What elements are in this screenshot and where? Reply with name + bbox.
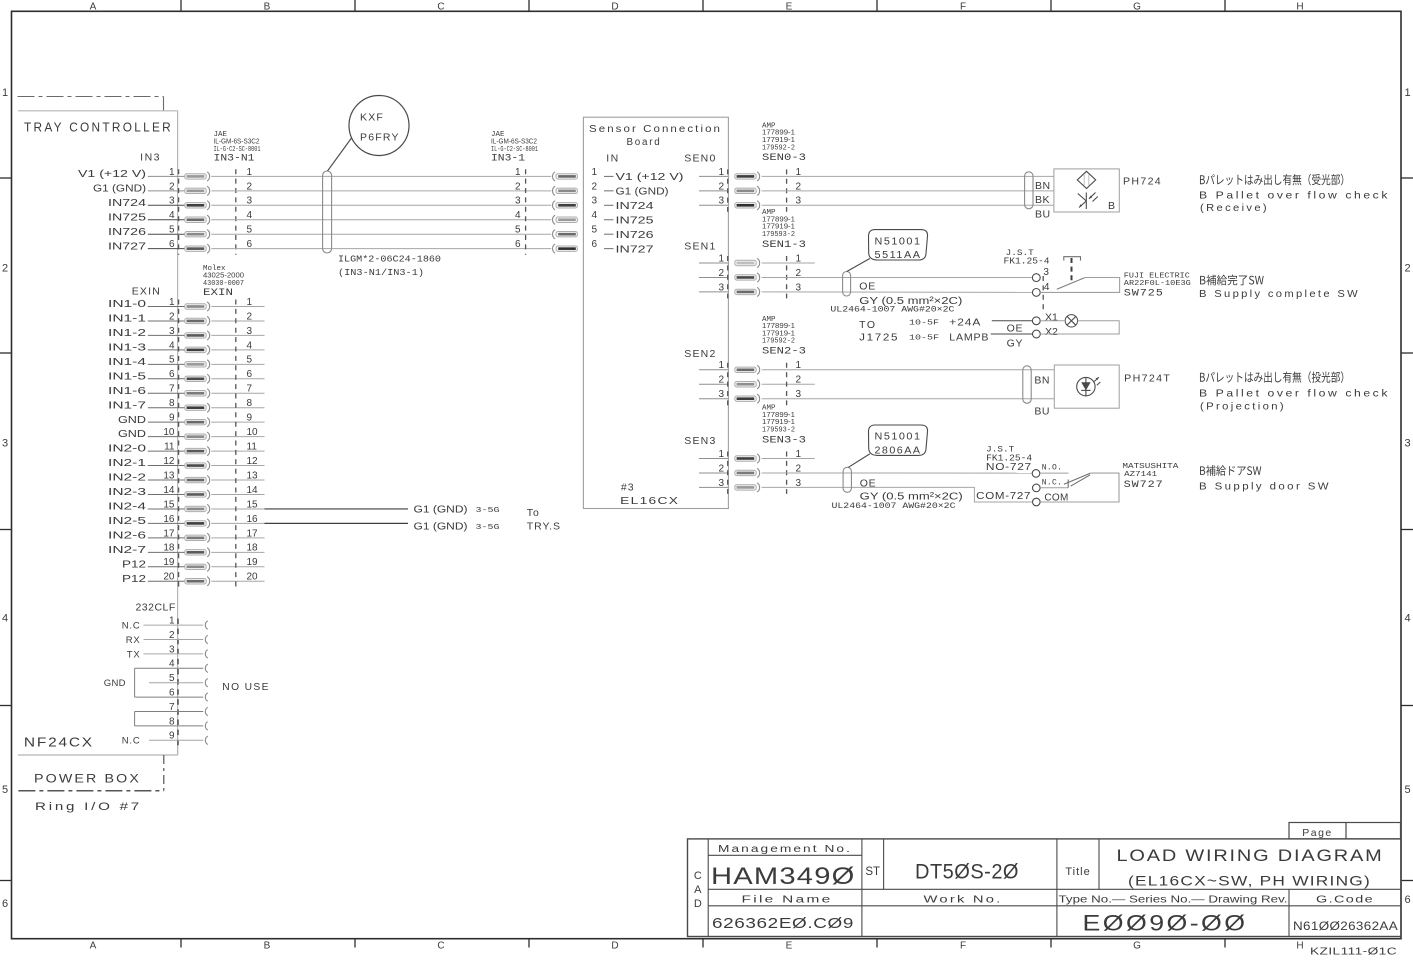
- destination label To TRY.S: [527, 507, 561, 533]
- terminal label J.S.T FK1.25-4 (SW727): [986, 446, 1032, 464]
- wire SEN1 pin3 GY to SW725 terminal 4: [762, 291, 1033, 294]
- svg-text:177919-1: 177919-1: [762, 328, 795, 337]
- svg-text:A: A: [694, 884, 702, 896]
- cable wires IN3-N1 to IN3-1: [211, 176, 551, 248]
- SEN2 connector housing dashed lines: [727, 363, 729, 405]
- JAE connector part labels IN3-N1: [214, 131, 261, 165]
- svg-text:(IN3-N1/IN3-1): (IN3-N1/IN3-1): [338, 267, 424, 278]
- svg-text:B Pallet over flow check: B Pallet over flow check: [1199, 388, 1390, 400]
- net label G1 (GND) 3-5G pin16: [414, 522, 501, 533]
- wire +24A to X1: [992, 320, 1033, 322]
- svg-text:IN727: IN727: [616, 244, 655, 255]
- svg-text:GND: GND: [118, 429, 146, 440]
- svg-text:IN1-2: IN1-2: [108, 328, 147, 339]
- svg-text:4: 4: [1044, 282, 1050, 293]
- svg-text:NO-727: NO-727: [986, 462, 1032, 473]
- svg-text:5: 5: [169, 225, 175, 236]
- SW727 terminal N.O.: [1032, 470, 1040, 478]
- svg-text:IN724: IN724: [616, 201, 655, 212]
- sensor connection board outline: [583, 117, 728, 508]
- svg-text:H: H: [1296, 2, 1303, 13]
- svg-text:EØØ9Ø-ØØ: EØØ9Ø-ØØ: [1083, 911, 1248, 936]
- svg-text:D: D: [611, 941, 618, 952]
- svg-text:177919-1: 177919-1: [762, 417, 795, 426]
- svg-text:5: 5: [169, 355, 175, 366]
- svg-text:B Supply door SW: B Supply door SW: [1199, 481, 1331, 493]
- svg-text:Page: Page: [1302, 827, 1333, 839]
- switch SW727 contacts and lever: [1040, 473, 1090, 488]
- GND bracket pins 4-6: [104, 668, 135, 697]
- svg-text:B Supply complete SW: B Supply complete SW: [1199, 288, 1360, 300]
- svg-text:V1 (+12 V): V1 (+12 V): [78, 169, 146, 180]
- svg-text:G.Code: G.Code: [1316, 893, 1374, 905]
- svg-text:IN1-5: IN1-5: [108, 371, 147, 382]
- svg-text:(Projection): (Projection): [1200, 401, 1286, 413]
- connector SEN3 pins: [699, 449, 815, 492]
- svg-text:X1: X1: [1045, 311, 1058, 323]
- svg-text:IN726: IN726: [616, 230, 655, 241]
- svg-text:IN2-5: IN2-5: [108, 516, 147, 527]
- SW725 terminal 4: [1032, 289, 1040, 297]
- svg-text:HAM349Ø: HAM349Ø: [711, 863, 856, 890]
- AMP connector part labels SEN1-3: [762, 209, 806, 251]
- svg-text:6: 6: [592, 239, 598, 250]
- svg-text:Title: Title: [1065, 866, 1090, 878]
- svg-text:D: D: [694, 898, 702, 910]
- svg-text:3: 3: [169, 196, 175, 207]
- description PH724 japanese: B pallet overflow (receiver): [1200, 174, 1343, 186]
- svg-text:AZ7141: AZ7141: [1124, 471, 1157, 479]
- svg-text:3: 3: [1043, 267, 1049, 278]
- svg-text:SEN1-3: SEN1-3: [762, 240, 806, 251]
- svg-text:P12: P12: [122, 574, 147, 585]
- destination labels TO J1725: [859, 319, 899, 343]
- svg-text:BN: BN: [1035, 180, 1051, 192]
- svg-text:8: 8: [169, 398, 175, 409]
- svg-text:3-5G: 3-5G: [476, 507, 501, 515]
- svg-text:N.C: N.C: [122, 736, 141, 747]
- svg-text:IL-GM-6S-S3C2: IL-GM-6S-S3C2: [214, 136, 260, 145]
- lamp terminal X1: [1032, 317, 1040, 325]
- svg-text:N.O.: N.O.: [1042, 464, 1062, 473]
- svg-text:2: 2: [2, 263, 8, 275]
- photo sensor PH724 (receiver): [1054, 169, 1119, 212]
- connector IN3-1 pins: [515, 167, 577, 253]
- connector SEN1 pins: [699, 253, 815, 296]
- net labels +24A LAMPB: [949, 316, 989, 343]
- svg-text:232CLF: 232CLF: [135, 602, 175, 614]
- balloon N51001 2806AA: [848, 425, 927, 467]
- svg-text:G1 (GND): G1 (GND): [414, 505, 468, 516]
- svg-text:179592-2: 179592-2: [762, 338, 795, 346]
- svg-text:5: 5: [515, 225, 521, 236]
- wire tags 10-5F: [909, 319, 939, 342]
- svg-text:Ring I/O #7: Ring I/O #7: [35, 801, 142, 813]
- description PH724T japanese: B pallet overflow (projector): [1200, 371, 1343, 383]
- svg-text:MATSUSHITA: MATSUSHITA: [1122, 463, 1179, 471]
- svg-text:3: 3: [592, 196, 598, 207]
- wire 232CLF housing to board edge: [177, 746, 179, 756]
- svg-text:IN1-4: IN1-4: [108, 357, 147, 368]
- SW725 terminal 3: [1032, 274, 1040, 282]
- SW725 actuator dashed plunger: [1064, 257, 1081, 282]
- wire labels OE GY (lamp): [1007, 323, 1024, 350]
- svg-text:20: 20: [163, 572, 175, 583]
- svg-text:177919-1: 177919-1: [762, 135, 795, 144]
- terminal names N.O. N.C. COM: [1042, 464, 1069, 504]
- IN3-1 connector dashed line: [525, 169, 527, 255]
- svg-text:3: 3: [169, 326, 175, 337]
- lamp circuit return wire: [1040, 321, 1119, 334]
- svg-text:6: 6: [169, 239, 175, 250]
- svg-text:N.C.: N.C.: [1042, 479, 1062, 488]
- svg-text:IN724: IN724: [108, 198, 147, 209]
- photo sensor PH724T (projector): [1054, 365, 1119, 408]
- terminal numbers 3 and 4: [1043, 267, 1050, 293]
- svg-text:(Receive): (Receive): [1200, 202, 1269, 214]
- connector EXIN pins: [108, 297, 265, 586]
- connector IN3 pins: [78, 167, 253, 253]
- wire SEN2 pin3 BU to PH724T: [762, 398, 1055, 400]
- svg-text:10: 10: [163, 427, 175, 438]
- AMP connector part labels SEN3-3: [762, 405, 806, 447]
- svg-text:IN2-6: IN2-6: [108, 530, 147, 541]
- svg-text:SEN0-3: SEN0-3: [762, 153, 806, 164]
- svg-text:SW727: SW727: [1124, 479, 1164, 491]
- lamp LAMPB symbol: [1065, 315, 1077, 327]
- svg-text:G: G: [1133, 941, 1141, 952]
- svg-text:NF24CX: NF24CX: [24, 735, 94, 750]
- svg-text:3: 3: [515, 196, 521, 207]
- svg-text:FUJI ELECTRIC: FUJI ELECTRIC: [1124, 272, 1190, 280]
- svg-text:626362EØ.CØ9: 626362EØ.CØ9: [712, 915, 854, 932]
- description SW727 japanese: B supply door SW: [1200, 465, 1261, 476]
- svg-text:2: 2: [1404, 263, 1410, 275]
- JAE connector part labels IN3-1: [491, 131, 538, 165]
- svg-text:3: 3: [1404, 438, 1410, 450]
- svg-text:15: 15: [163, 499, 175, 510]
- svg-text:11: 11: [164, 442, 175, 453]
- svg-text:PH724T: PH724T: [1124, 372, 1171, 384]
- wire LAMPB to X2: [991, 333, 1033, 335]
- svg-text:IN1-3: IN1-3: [108, 342, 147, 353]
- description PH724 english: [1199, 190, 1390, 214]
- IN3 connector housing dashed lines: [178, 169, 180, 255]
- svg-text:OE: OE: [860, 478, 877, 490]
- svg-text:OE: OE: [859, 281, 876, 293]
- cable marker oval PH724T: [1023, 366, 1031, 404]
- svg-text:A: A: [90, 2, 97, 13]
- svg-text:IN727: IN727: [108, 241, 147, 252]
- terminal names X1 X2: [1045, 311, 1058, 338]
- svg-text:IN1-0: IN1-0: [108, 299, 147, 310]
- svg-text:TO: TO: [859, 319, 876, 331]
- tray controller board outline: [18, 111, 178, 755]
- SW727 terminal COM: [1033, 498, 1041, 506]
- svg-text:12: 12: [163, 456, 175, 467]
- svg-text:5: 5: [1404, 784, 1410, 796]
- svg-text:EXIN: EXIN: [203, 288, 233, 299]
- title block page cell: [1289, 823, 1401, 840]
- description SW725 japanese: B supply complete SW: [1200, 275, 1264, 286]
- svg-text:IN2-1: IN2-1: [108, 458, 147, 469]
- svg-text:4: 4: [169, 340, 175, 351]
- svg-text:C: C: [437, 2, 444, 13]
- svg-text:179593-2: 179593-2: [762, 426, 795, 434]
- net label G1 (GND) 3-5G pin15: [414, 505, 501, 516]
- svg-text:GY: GY: [1007, 337, 1024, 349]
- svg-text:2: 2: [169, 311, 175, 322]
- svg-text:D: D: [611, 2, 618, 13]
- tray controller dash-dot boundary: [18, 97, 164, 111]
- svg-text:177919-1: 177919-1: [762, 222, 795, 231]
- 232CLF connector dashed line: [177, 619, 179, 749]
- svg-text:Work No.: Work No.: [924, 894, 1003, 905]
- svg-text:B: B: [264, 2, 271, 13]
- svg-text:IN1-6: IN1-6: [108, 386, 147, 397]
- svg-text:6: 6: [1404, 894, 1410, 906]
- lamp terminal X2: [1033, 330, 1041, 338]
- terminal label J.S.T FK1.25-4 (SW725): [1004, 249, 1050, 266]
- cable marker oval PH724: [1025, 172, 1033, 209]
- border column letters top: [90, 2, 1304, 13]
- bracket pins 7-8: [134, 712, 136, 726]
- svg-text:1: 1: [592, 167, 598, 178]
- svg-text:Sensor Connection: Sensor Connection: [589, 124, 722, 135]
- AMP connector part labels SEN2-3: [762, 316, 806, 358]
- svg-text:N61ØØ26362AA: N61ØØ26362AA: [1293, 921, 1398, 933]
- svg-text:179593-2: 179593-2: [762, 231, 795, 239]
- Molex connector part labels EXIN: [203, 265, 244, 299]
- svg-text:UL2464-1007 AWG#20×2C: UL2464-1007 AWG#20×2C: [832, 502, 956, 511]
- svg-text:6: 6: [169, 369, 175, 380]
- svg-text:J1725: J1725: [859, 331, 899, 343]
- svg-text:N51001: N51001: [875, 236, 922, 247]
- svg-text:IN2-2: IN2-2: [108, 473, 147, 484]
- svg-text:LOAD WIRING DIAGRAM: LOAD WIRING DIAGRAM: [1117, 847, 1384, 865]
- svg-text:IN3: IN3: [140, 152, 161, 164]
- cable marker oval SEN1: [843, 272, 851, 297]
- svg-text:IN725: IN725: [108, 212, 147, 223]
- svg-text:TRAY CONTROLLER: TRAY CONTROLLER: [24, 121, 173, 135]
- svg-text:P6FRY: P6FRY: [360, 132, 400, 144]
- svg-text:ILGM*2-06C24-1860: ILGM*2-06C24-1860: [338, 254, 441, 265]
- connector 232CLF pins: [122, 616, 208, 747]
- description PH724T english: [1199, 388, 1390, 413]
- svg-text:1: 1: [169, 167, 175, 178]
- svg-text:EL16CX: EL16CX: [620, 495, 679, 507]
- part labels FUJI ELECTRIC AR22F0L-10E3G SW725: [1124, 272, 1191, 299]
- svg-text:GND: GND: [104, 678, 126, 689]
- svg-text:13: 13: [163, 470, 175, 481]
- svg-text:IN3-N1: IN3-N1: [214, 154, 255, 165]
- SEN3 connector housing dashed lines: [727, 452, 729, 494]
- svg-text:5511AA: 5511AA: [875, 250, 922, 261]
- svg-text:FK1.25-4: FK1.25-4: [1004, 256, 1050, 266]
- svg-text:Board: Board: [627, 137, 662, 148]
- switch SW727 body outline: [1040, 473, 1119, 502]
- label Sensor Connection Board: [589, 124, 722, 148]
- svg-text:UL2464-1007 AWG#20×2C: UL2464-1007 AWG#20×2C: [830, 306, 954, 315]
- svg-text:IN1-7: IN1-7: [108, 400, 147, 411]
- svg-text:2: 2: [515, 181, 521, 192]
- svg-text:BK: BK: [1035, 194, 1050, 206]
- svg-text:B: B: [264, 941, 271, 952]
- svg-text:Management No.: Management No.: [718, 844, 852, 855]
- svg-text:TRY.S: TRY.S: [527, 521, 561, 533]
- svg-text:5: 5: [592, 225, 598, 236]
- wire color labels BN BK BU: [1035, 180, 1051, 221]
- SW727 terminal N.C.: [1033, 484, 1041, 492]
- svg-text:2806AA: 2806AA: [875, 445, 922, 456]
- svg-text:PH724: PH724: [1123, 176, 1162, 188]
- SEN1 connector housing dashed lines: [727, 256, 729, 298]
- svg-text:G1 (GND): G1 (GND): [93, 183, 146, 194]
- connector SEN2 pins: [699, 360, 815, 403]
- svg-text:1: 1: [1404, 87, 1410, 99]
- svg-text:BN: BN: [1034, 374, 1050, 386]
- svg-text:B Pallet over flow check: B Pallet over flow check: [1199, 190, 1390, 202]
- svg-text:SEN2-3: SEN2-3: [762, 347, 806, 358]
- svg-text:E: E: [786, 941, 793, 952]
- svg-text:KXF: KXF: [360, 112, 384, 124]
- svg-text:E: E: [786, 2, 793, 13]
- wire SEN3 pin2 OE to SW727 N.O.: [762, 472, 1032, 474]
- connector housing dashed link (FK1.25-4): [1042, 276, 1044, 312]
- svg-text:IN2-7: IN2-7: [108, 545, 147, 556]
- svg-text:9: 9: [169, 413, 175, 424]
- svg-text:To: To: [527, 507, 540, 519]
- switch SW725 lever and body: [1040, 278, 1119, 293]
- svg-text:EXIN: EXIN: [132, 286, 161, 298]
- svg-text:(EL16CX~SW, PH WIRING): (EL16CX~SW, PH WIRING): [1128, 873, 1371, 889]
- svg-text:4: 4: [2, 613, 8, 625]
- svg-text:DT5ØS-2Ø: DT5ØS-2Ø: [915, 861, 1019, 884]
- AMP connector part labels SEN0-3: [762, 122, 806, 164]
- svg-text:2: 2: [169, 181, 175, 192]
- svg-text:OE: OE: [1007, 323, 1024, 335]
- svg-text:+24A: +24A: [949, 316, 981, 328]
- title block outline: [688, 839, 1402, 937]
- svg-text:GND: GND: [118, 415, 146, 426]
- svg-text:1: 1: [2, 87, 8, 99]
- svg-text:X2: X2: [1045, 326, 1058, 338]
- connector SEN0 pins: [699, 167, 802, 210]
- svg-text:SEN0: SEN0: [684, 153, 716, 165]
- svg-text:POWER BOX: POWER BOX: [34, 772, 141, 786]
- svg-text:18: 18: [163, 543, 175, 554]
- svg-text:#3: #3: [621, 481, 635, 493]
- svg-text:IL-GM-6S-S3C2: IL-GM-6S-S3C2: [491, 136, 537, 145]
- wire SEN2 pin1 BN to PH724T: [762, 369, 1055, 371]
- svg-text:10-5F: 10-5F: [909, 334, 939, 342]
- svg-text:TX: TX: [127, 649, 141, 660]
- wire SEN3 pin3 GY to SW727 COM: [762, 487, 1033, 502]
- svg-text:17: 17: [163, 528, 175, 539]
- svg-text:C: C: [437, 941, 444, 952]
- svg-text:F: F: [960, 941, 966, 952]
- svg-text:BU: BU: [1034, 406, 1050, 418]
- svg-text:P12: P12: [122, 559, 147, 570]
- svg-text:LAMPB: LAMPB: [949, 331, 989, 343]
- title block CAD marker: [694, 870, 702, 910]
- svg-text:V1 (+12 V): V1 (+12 V): [616, 172, 684, 183]
- svg-text:4: 4: [592, 210, 598, 221]
- svg-text:IN2-4: IN2-4: [108, 502, 147, 513]
- svg-text:F: F: [960, 2, 966, 13]
- svg-text:IN726: IN726: [108, 227, 147, 238]
- svg-text:IN3-1: IN3-1: [491, 154, 525, 165]
- svg-text:Type No.— Series No.— Drawing: Type No.— Series No.— Drawing Rev.: [1059, 895, 1288, 906]
- svg-text:3-5G: 3-5G: [476, 524, 501, 532]
- svg-text:4: 4: [169, 210, 175, 221]
- svg-text:ST: ST: [865, 866, 880, 878]
- svg-text:File Name: File Name: [742, 894, 833, 905]
- power box dash-dot boundary: [18, 755, 163, 791]
- svg-text:G1 (GND): G1 (GND): [414, 522, 468, 533]
- svg-text:G: G: [1133, 2, 1141, 13]
- label #3 EL16CX: [620, 481, 679, 507]
- wire SEN1 pin2 OE to SW725 terminal 3: [762, 276, 1033, 278]
- svg-text:SW725: SW725: [1124, 287, 1164, 299]
- cable marker oval SEN3: [843, 467, 851, 492]
- svg-text:C: C: [694, 870, 702, 882]
- part labels MATSUSHITA AZ7141 SW727: [1122, 463, 1179, 491]
- svg-text:IN1-1: IN1-1: [108, 314, 147, 325]
- svg-text:16: 16: [163, 514, 175, 525]
- wire EXIN pin16 to G1 (GND): [265, 522, 409, 524]
- border column letters bottom: [90, 941, 1304, 952]
- svg-text:5: 5: [2, 784, 8, 796]
- svg-text:RX: RX: [126, 635, 141, 646]
- EXIN connector housing dashed lines: [178, 300, 180, 588]
- svg-text:KZIL111-Ø1C: KZIL111-Ø1C: [1310, 947, 1397, 958]
- svg-text:6: 6: [2, 898, 8, 910]
- svg-text:3: 3: [2, 438, 8, 450]
- svg-text:2: 2: [592, 181, 598, 192]
- border row numbers right: [1404, 87, 1410, 906]
- svg-text:G1 (GND): G1 (GND): [616, 187, 669, 198]
- cable bundle marker oval: [323, 171, 332, 253]
- svg-text:10-5F: 10-5F: [909, 319, 939, 327]
- border row numbers left: [2, 87, 8, 910]
- svg-text:7: 7: [169, 384, 175, 395]
- wire EXIN pin15 to G1 (GND): [265, 508, 409, 510]
- svg-text:6: 6: [515, 239, 521, 250]
- svg-text:SEN3: SEN3: [684, 435, 716, 447]
- svg-text:IN: IN: [606, 153, 620, 165]
- svg-text:GY (0.5 mm²×2C): GY (0.5 mm²×2C): [860, 491, 963, 502]
- balloon KXF P6FRY: [328, 96, 410, 172]
- svg-text:SEN1: SEN1: [684, 240, 716, 252]
- svg-text:NO USE: NO USE: [222, 681, 269, 693]
- svg-text:IN2-3: IN2-3: [108, 487, 147, 498]
- svg-text:179592-2: 179592-2: [762, 144, 795, 152]
- SEN0 connector housing dashed lines: [727, 169, 729, 211]
- svg-text:BU: BU: [1035, 209, 1051, 221]
- wires SEN0 to PH724: [762, 176, 1054, 205]
- board IN pins: [592, 167, 684, 256]
- svg-text:N.C: N.C: [122, 621, 141, 632]
- svg-text:1: 1: [515, 167, 521, 178]
- svg-text:N51001: N51001: [875, 432, 922, 443]
- svg-text:IN725: IN725: [616, 216, 655, 227]
- svg-text:IN2-0: IN2-0: [108, 444, 147, 455]
- wire color labels BN BU (PH724T): [1034, 374, 1050, 417]
- svg-text:43025-2000: 43025-2000: [203, 271, 244, 280]
- svg-text:B: B: [1108, 200, 1115, 212]
- balloon N51001 5511AA: [847, 230, 928, 272]
